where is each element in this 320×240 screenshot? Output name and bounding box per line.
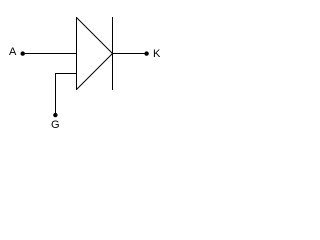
svg-text:A: A: [9, 46, 17, 58]
svg-text:K: K: [153, 48, 161, 60]
svg-text:G: G: [51, 119, 60, 131]
